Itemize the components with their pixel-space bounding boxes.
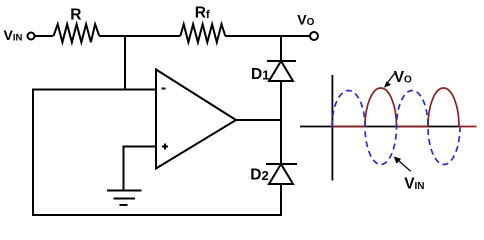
svg-text:D2: D2 — [250, 167, 268, 184]
svg-text:R: R — [70, 6, 81, 23]
svg-text:D1: D1 — [251, 66, 269, 83]
